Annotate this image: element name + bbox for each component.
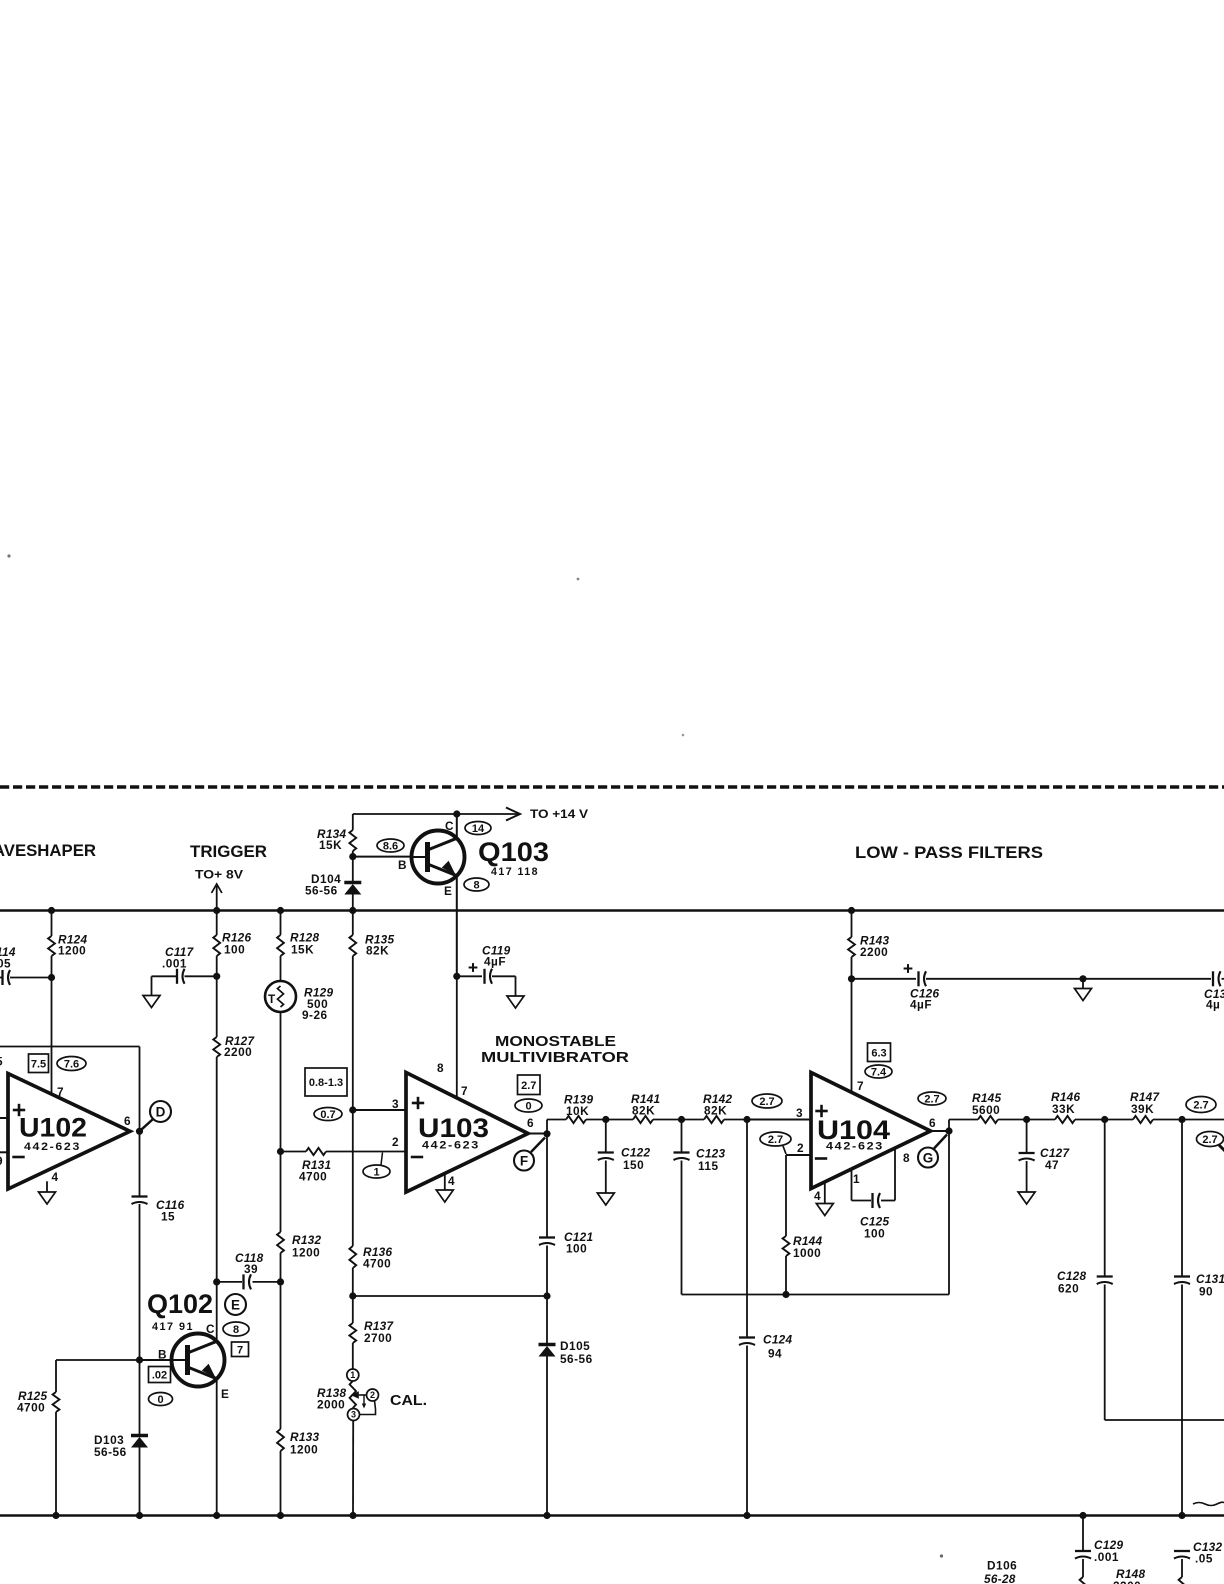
resistor R147 (1105, 1090, 1182, 1123)
label WAVESHAPER section title (0, 842, 96, 860)
svg-text:10K: 10K (566, 1104, 589, 1118)
arrow TO +14 V (457, 807, 588, 821)
wire node to R137 (352, 1296, 354, 1323)
resistor R132 (277, 1232, 321, 1260)
wire U102 top box line (0, 1047, 140, 1132)
svg-text:.001: .001 (1094, 1550, 1119, 1564)
svg-text:.02: .02 (152, 1370, 167, 1382)
wire C121 to node (546, 1246, 548, 1297)
capacitor C132 (1174, 1540, 1223, 1577)
resistor R133 (277, 1429, 319, 1457)
svg-text:4µ: 4µ (1206, 998, 1220, 1012)
svg-text:TO +14 V: TO +14 V (530, 807, 588, 821)
svg-text:9: 9 (0, 1154, 3, 1168)
wire C118 node to R133 (280, 1282, 282, 1429)
capacitor C117 (152, 945, 217, 996)
capacitor C131 (1174, 1120, 1224, 1520)
svg-text:8: 8 (903, 1151, 910, 1165)
node U102 output (136, 1128, 143, 1135)
transistor Q103 (398, 819, 549, 898)
artifact wavy mark (1193, 1502, 1224, 1505)
svg-text:7.6: 7.6 (64, 1059, 79, 1071)
svg-text:4µF: 4µF (910, 998, 932, 1012)
wire bus to R124 (48, 907, 55, 936)
svg-text:1: 1 (373, 1167, 379, 1179)
svg-text:56-56: 56-56 (94, 1445, 127, 1459)
svg-text:442-623: 442-623 (826, 1141, 884, 1153)
wire C117 node to R127 (216, 976, 218, 1037)
wire R144 to loop (785, 1256, 787, 1295)
wire U103 out jog (546, 1120, 548, 1134)
node D105 top (543, 1292, 550, 1299)
capacitor C130 (cut at edge) (1204, 971, 1224, 1011)
wire R124 to node (51, 956, 53, 978)
svg-text:1000: 1000 (793, 1246, 821, 1260)
svg-text:56-56: 56-56 (560, 1352, 593, 1366)
resistor R128 (277, 931, 319, 957)
svg-text:5: 5 (0, 1055, 3, 1069)
wire bus to R135 (352, 911, 354, 936)
svg-text:4: 4 (814, 1189, 821, 1203)
node C114/R124 junction (48, 974, 55, 981)
oval 2.7 marker above U104 pin6 (918, 1092, 946, 1106)
svg-text:90: 90 (1199, 1285, 1213, 1299)
svg-text:F: F (520, 1153, 528, 1168)
box 0.8-1.3 marker (305, 1068, 347, 1096)
wire R126 to C117 node (216, 956, 218, 976)
node C127 (1023, 1116, 1030, 1123)
svg-text:56-28: 56-28 (984, 1572, 1016, 1584)
wire Q103 collector up (456, 814, 458, 838)
svg-text:15: 15 (161, 1210, 175, 1224)
label D106 (984, 1559, 1017, 1584)
svg-text:WAVESHAPER: WAVESHAPER (0, 842, 96, 860)
wire U102 output down (139, 1131, 141, 1195)
capacitor C122 (598, 1120, 651, 1194)
svg-text:8: 8 (233, 1324, 239, 1336)
node C128 (1101, 1116, 1108, 1123)
node C118 left (213, 1278, 220, 1285)
box 7 marker Q102 (232, 1342, 249, 1357)
svg-text:1: 1 (853, 1172, 860, 1186)
svg-text:442-623: 442-623 (422, 1140, 480, 1152)
svg-text:TO+ 8V: TO+ 8V (195, 868, 243, 882)
testpoint D (140, 1101, 172, 1131)
svg-text:2200: 2200 (860, 945, 888, 959)
wire D105 to bus (543, 1357, 550, 1520)
wire rail to R134 (352, 814, 354, 830)
resistor R141 (606, 1092, 682, 1123)
wire U102 pin4 to ground (46, 1181, 48, 1192)
svg-text:442-623: 442-623 (24, 1141, 81, 1153)
svg-text:14: 14 (472, 823, 485, 835)
svg-text:0: 0 (157, 1394, 163, 1406)
svg-text:620: 620 (1058, 1282, 1079, 1296)
svg-text:U103: U103 (418, 1113, 489, 1143)
svg-text:Q103: Q103 (478, 837, 549, 867)
oval 7.6 marker (57, 1057, 86, 1071)
svg-text:4µF: 4µF (484, 955, 506, 969)
svg-text:2.7: 2.7 (924, 1094, 939, 1106)
ground C127 (1018, 1192, 1035, 1204)
thermistor R129 (265, 981, 334, 1022)
svg-text:4700: 4700 (363, 1257, 391, 1271)
svg-text:2200: 2200 (1113, 1579, 1141, 1584)
svg-text:4700: 4700 (299, 1170, 327, 1184)
svg-text:E: E (444, 884, 452, 898)
wire U104 pin2 (786, 1155, 811, 1236)
diode D105 (539, 1339, 593, 1366)
wire R129 down to R131 node (280, 1012, 282, 1152)
svg-text:05: 05 (0, 957, 11, 971)
transistor Q102 (147, 1289, 229, 1401)
wire +14V rail (353, 810, 461, 817)
node C117 junction (213, 973, 220, 980)
wire U104 pin3 (747, 1119, 811, 1121)
resistor R148 (cut) (1080, 1567, 1146, 1584)
resistor R127 (213, 1034, 255, 1059)
svg-text:150: 150 (623, 1158, 644, 1172)
resistor R131 (281, 1148, 407, 1184)
svg-text:C124: C124 (763, 1333, 793, 1347)
oval 0.7 marker (314, 1108, 342, 1122)
wire filter out to edge (1182, 1119, 1224, 1121)
wire +8V top bus (0, 909, 1224, 912)
svg-text:7.4: 7.4 (871, 1067, 887, 1079)
oval 2.7 marker above R142 (752, 1094, 782, 1108)
capacitor C123 (674, 1120, 726, 1295)
resistor R146 (1027, 1090, 1105, 1123)
wire node to U102 pin7 (51, 978, 53, 1095)
svg-text:2.7: 2.7 (768, 1134, 783, 1146)
svg-text:2: 2 (392, 1135, 399, 1149)
node U103 output (528, 1130, 551, 1137)
svg-text:39: 39 (244, 1262, 258, 1276)
svg-text:4: 4 (448, 1174, 455, 1188)
wire C116 to Q102 base node (139, 1204, 141, 1360)
node C122 (602, 1116, 609, 1123)
box 6.3 marker (868, 1043, 891, 1062)
dashed section separator (0, 785, 1224, 788)
svg-text:6: 6 (527, 1116, 534, 1130)
svg-text:2.7: 2.7 (1193, 1100, 1208, 1112)
wire U103 pin4 to ground (444, 1175, 446, 1191)
svg-text:9-26: 9-26 (302, 1008, 328, 1022)
svg-text:2200: 2200 (224, 1045, 252, 1059)
svg-text:0: 0 (525, 1101, 531, 1113)
svg-text:7: 7 (57, 1085, 64, 1099)
svg-text:Q102: Q102 (147, 1289, 213, 1319)
ground C119 (507, 996, 524, 1008)
resistor R142 (682, 1092, 748, 1123)
wire U104 pin4 to ground (824, 1182, 826, 1204)
svg-text:417 118: 417 118 (491, 866, 539, 878)
svg-text:D: D (156, 1104, 166, 1119)
capacitor C129 (1075, 1512, 1124, 1577)
oval 0 marker Q102 (149, 1393, 173, 1407)
svg-text:33K: 33K (1052, 1102, 1075, 1116)
svg-text:2: 2 (370, 1390, 375, 1400)
svg-text:100: 100 (224, 943, 245, 957)
node R134/D104/base (349, 851, 356, 860)
svg-text:7: 7 (857, 1079, 864, 1093)
box 7.5 marker (29, 1054, 49, 1073)
svg-text:6: 6 (124, 1114, 131, 1128)
wire base node to D103 (139, 1360, 141, 1436)
ground U104 pin4 (816, 1204, 833, 1216)
svg-text:D106: D106 (987, 1559, 1017, 1573)
op-amp U103 (392, 1061, 534, 1192)
resistor R149 (cut) (1179, 1577, 1186, 1584)
wire R137 to pot (352, 1343, 354, 1370)
node C126 junction (848, 975, 855, 982)
svg-text:1: 1 (350, 1370, 355, 1380)
svg-text:0.8-1.3: 0.8-1.3 (309, 1077, 343, 1089)
svg-text:7: 7 (461, 1084, 468, 1098)
svg-text:MONOSTABLE: MONOSTABLE (495, 1033, 616, 1050)
svg-text:4700: 4700 (17, 1401, 45, 1415)
wire Q103 emitter down (456, 876, 458, 977)
wire pin3 (353, 1109, 406, 1111)
testpoint E circle (225, 1294, 246, 1315)
svg-text:G: G (923, 1150, 934, 1165)
resistor R124 (48, 933, 87, 958)
node C119 junction (453, 973, 460, 980)
ground C126 (1075, 989, 1092, 1001)
testpoint G (918, 1135, 947, 1168)
op-amp U104 (796, 1073, 936, 1204)
capacitor C118 (217, 1251, 281, 1289)
svg-text:E: E (231, 1297, 240, 1312)
svg-text:115: 115 (698, 1159, 719, 1173)
wire pot to bus (349, 1420, 356, 1519)
wire R128 to R129 (280, 956, 282, 981)
diode D104 (305, 872, 361, 898)
oval 7.4 marker (865, 1065, 892, 1079)
wire U102 -input stub (0, 1152, 8, 1168)
resistor R139 (547, 1093, 606, 1124)
svg-text:1200: 1200 (292, 1246, 320, 1260)
svg-text:6: 6 (929, 1116, 936, 1130)
wire pin3 node down to R136 (352, 1110, 354, 1246)
wire C128 bottom out (1105, 1419, 1224, 1421)
box .02 marker Q102 (149, 1367, 171, 1383)
svg-text:2.7: 2.7 (521, 1080, 536, 1092)
wire bus to R143 (848, 907, 855, 937)
oval 8 marker Q102 (223, 1322, 249, 1336)
svg-text:2.7: 2.7 (1202, 1134, 1217, 1146)
wire base node to Q103 (353, 856, 412, 858)
wire R143 to C126 node (851, 957, 853, 979)
wire R136 to node (352, 1268, 354, 1296)
diode D103 (94, 1433, 148, 1459)
op-amp U102 (8, 1074, 131, 1190)
wire bus to R126 (213, 907, 220, 935)
svg-text:100: 100 (864, 1227, 885, 1241)
svg-text:3: 3 (796, 1106, 803, 1120)
resistor R136 (349, 1245, 392, 1271)
wire R135 to pin3 node (352, 956, 354, 1110)
ground U103 pin4 (436, 1190, 453, 1202)
wire bottom return bus (0, 1514, 1224, 1517)
wire node to D104 (352, 857, 354, 883)
svg-text:E: E (221, 1387, 229, 1401)
label TRIGGER section title (190, 843, 267, 861)
wire R125 to bus (52, 1412, 59, 1519)
wire to C130 (1083, 978, 1211, 980)
svg-text:MULTIVIBRATOR: MULTIVIBRATOR (481, 1049, 629, 1066)
wire D103 to bus (136, 1448, 143, 1520)
svg-text:8: 8 (473, 880, 479, 892)
capacitor C116 (132, 1197, 185, 1224)
svg-text:8.6: 8.6 (383, 841, 398, 853)
svg-text:D105: D105 (560, 1339, 590, 1353)
node C123 (678, 1116, 685, 1123)
svg-text:6.3: 6.3 (871, 1047, 886, 1059)
testpoint F (514, 1138, 545, 1171)
node C118 right (277, 1278, 284, 1285)
ground U102 pin4 (39, 1192, 56, 1204)
node C124/U104 pin3 (743, 1116, 750, 1123)
svg-text:417 91: 417 91 (152, 1321, 194, 1333)
oval 2.7 marker right (1186, 1097, 1216, 1113)
oval 0 marker U103 (515, 1099, 542, 1113)
capacitor C125 (852, 1149, 896, 1241)
svg-text:1200: 1200 (58, 944, 86, 958)
capacitor C124 (739, 1120, 793, 1520)
svg-text:7: 7 (237, 1344, 243, 1356)
oval 1 marker (363, 1153, 390, 1179)
resistor R125 (17, 1389, 59, 1415)
wire C126 node to U104 pin7 (851, 979, 853, 1093)
svg-text:0.7: 0.7 (320, 1109, 335, 1121)
svg-text:15K: 15K (319, 838, 342, 852)
oval 2.7 marker edge (1197, 1132, 1224, 1153)
svg-text:CAL.: CAL. (390, 1393, 427, 1409)
svg-text:LOW - PASS FILTERS: LOW - PASS FILTERS (855, 844, 1043, 862)
wire R133 to bus (277, 1451, 284, 1519)
svg-text:15K: 15K (291, 943, 314, 957)
svg-text:TRIGGER: TRIGGER (190, 843, 267, 861)
resistor R143 (848, 934, 889, 960)
wire R132 to C118 node (280, 1253, 282, 1282)
svg-text:2000: 2000 (317, 1398, 345, 1412)
resistor R145 (949, 1091, 1027, 1123)
wire bus to R128 (277, 907, 284, 935)
node C126 ground tap (1079, 975, 1086, 988)
wire Q102 emitter down (213, 1379, 220, 1519)
ground C117 (143, 996, 160, 1008)
svg-text:U102: U102 (19, 1113, 87, 1143)
svg-text:100: 100 (566, 1242, 587, 1256)
svg-text:4: 4 (52, 1170, 59, 1184)
svg-text:2.7: 2.7 (759, 1096, 774, 1108)
svg-text:3: 3 (351, 1410, 356, 1420)
svg-text:B: B (398, 858, 407, 872)
node R137 top (349, 1292, 356, 1299)
arrow TO+8V (195, 868, 243, 911)
resistor R137 (349, 1319, 394, 1345)
svg-text:.05: .05 (1195, 1552, 1213, 1566)
ground C122 (597, 1193, 614, 1205)
label LOW-PASS FILTERS section title (855, 844, 1043, 862)
svg-text:82K: 82K (632, 1104, 655, 1118)
capacitor C128 (1057, 1120, 1113, 1421)
wire C118 node to Q102 collector (216, 1282, 218, 1342)
svg-text:39K: 39K (1131, 1102, 1154, 1116)
svg-text:5600: 5600 (972, 1103, 1000, 1117)
wire D104 to bus (349, 895, 356, 915)
svg-text:2700: 2700 (364, 1331, 392, 1345)
svg-text:47: 47 (1045, 1158, 1059, 1172)
resistor R126 (213, 931, 251, 957)
wire node to D105 (546, 1296, 548, 1345)
wire R131 node to R132 (280, 1152, 282, 1233)
capacitor C114 (cut at edge) (0, 945, 52, 985)
svg-text:T: T (268, 992, 276, 1006)
oval 14 marker (465, 822, 491, 836)
wire U104 feedback loop (682, 1131, 950, 1295)
node U103 pin3 (349, 1106, 356, 1113)
svg-text:C: C (206, 1322, 215, 1336)
wire U102 +input stub (0, 1055, 8, 1119)
svg-text:2: 2 (797, 1141, 804, 1155)
wire C119 node to U103 pin7 (456, 976, 458, 1098)
resistor R144 (783, 1234, 823, 1260)
node R131 junction (277, 1148, 284, 1155)
svg-text:8: 8 (437, 1061, 444, 1075)
svg-text:56-56: 56-56 (305, 884, 338, 898)
wire monostable feedback (353, 1295, 547, 1297)
node U104 output (931, 1127, 953, 1134)
svg-text:7.5: 7.5 (31, 1058, 46, 1070)
oval 8 marker Q103 (464, 878, 489, 892)
svg-text:1200: 1200 (290, 1443, 318, 1457)
svg-text:3: 3 (392, 1097, 399, 1111)
potentiometer R138 CAL (317, 1369, 427, 1421)
resistor R134 (317, 827, 356, 852)
resistor R135 (349, 933, 394, 958)
node C131 (1178, 1116, 1185, 1123)
wire base node to Q102 (140, 1359, 172, 1361)
capacitor C119 (457, 944, 516, 997)
svg-text:C: C (445, 819, 454, 833)
node R144 bottom (782, 1291, 789, 1298)
svg-text:82K: 82K (704, 1104, 727, 1118)
oval 2.7 marker U104 pin2 (760, 1132, 791, 1154)
svg-text:.001: .001 (162, 957, 187, 971)
artifact specks (7, 554, 943, 1557)
wire R127 to C118 node (216, 1057, 218, 1282)
node Q102 base junction (136, 1356, 143, 1363)
svg-text:82K: 82K (366, 944, 389, 958)
box 2.7 marker U103 (518, 1075, 541, 1095)
wire U103 out down (546, 1134, 548, 1237)
label MONOSTABLE MULTIVIBRATOR (481, 1033, 629, 1066)
capacitor C121 (539, 1230, 593, 1256)
svg-text:94: 94 (768, 1347, 782, 1361)
wire base node to R125 (56, 1360, 140, 1392)
oval 8.6 marker (377, 839, 404, 853)
capacitor C127 (1019, 1120, 1071, 1193)
capacitor C126 (852, 964, 1084, 1011)
wire U104 out jog (948, 1120, 950, 1132)
